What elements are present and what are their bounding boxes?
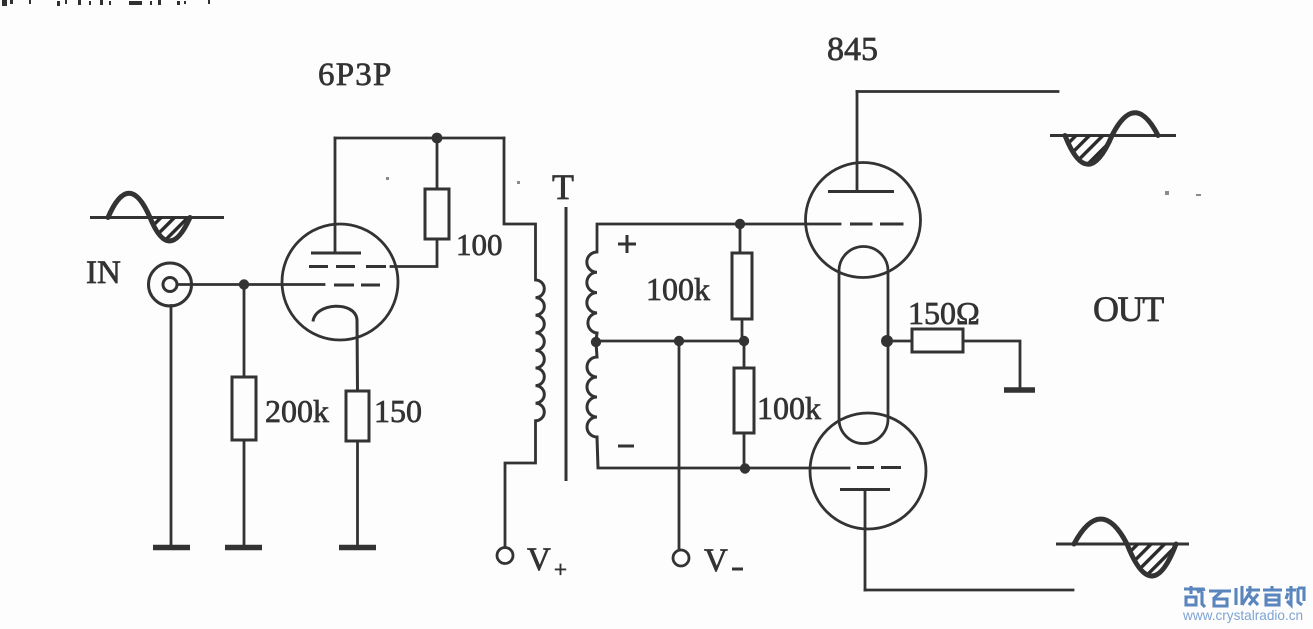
wire primary to V+	[505, 421, 536, 548]
wire 150 to ground	[356, 441, 359, 545]
wire secondary bottom to 845 grid	[598, 467, 849, 470]
node rail/100 junction	[432, 133, 443, 144]
svg-text:150: 150	[374, 393, 422, 429]
resistor 150ohm	[912, 329, 963, 352]
6P3P plate lead	[334, 138, 337, 253]
wire rail to 100 resistor	[436, 138, 439, 189]
wire center tap rail	[596, 340, 744, 343]
svg-text:100k: 100k	[646, 271, 710, 307]
transformer T primary winding	[536, 280, 545, 421]
ground (cathode)	[339, 545, 376, 551]
wire 100k upper to mid rail	[741, 319, 744, 341]
wire screen to 100 resistor	[391, 239, 437, 267]
label +	[618, 235, 636, 253]
845 filament capsule	[839, 246, 888, 443]
input sine wave curve	[108, 193, 190, 241]
ground (150ohm)	[1004, 387, 1035, 393]
upper output sine baseline	[1050, 134, 1176, 137]
svg-text:100: 100	[456, 227, 503, 262]
wire plate rail	[335, 137, 504, 140]
svg-text:V: V	[704, 543, 728, 579]
svg-text:OUT: OUT	[1093, 289, 1164, 329]
wire 845 plate to output	[857, 90, 1058, 93]
resistor 100k upper	[732, 253, 752, 319]
input sine wave hatched half	[150, 218, 190, 242]
wire secondary top to 845 grid	[597, 224, 840, 252]
ground (jack)	[153, 545, 190, 551]
resistor 150	[346, 391, 369, 441]
terminal V+	[497, 548, 513, 564]
svg-text:+: +	[554, 557, 567, 582]
lower output sine baseline	[1056, 543, 1189, 546]
terminal V-	[673, 550, 689, 566]
6P3P control grid (dashed)	[334, 284, 380, 287]
wire 200k to ground	[243, 440, 246, 545]
wire 845 lower plate to output	[865, 589, 1073, 592]
node input junction	[239, 279, 249, 289]
wire tap to 150ohm	[888, 340, 912, 343]
resistor 200k	[232, 377, 256, 440]
svg-text:100k: 100k	[757, 390, 821, 426]
svg-text:200k: 200k	[265, 393, 329, 429]
node 100k bottom	[740, 463, 750, 473]
tube 845 upper envelope	[806, 163, 921, 278]
input jack inner circle	[163, 278, 177, 292]
wire 150ohm to ground	[963, 341, 1020, 388]
resistor 100	[425, 189, 449, 239]
wire 100k lower to bottom rail	[743, 433, 746, 468]
svg-text:T: T	[552, 167, 574, 207]
node 100k top	[735, 219, 745, 229]
upper output sine curve	[1065, 113, 1158, 165]
paper specks	[386, 177, 1201, 196]
input jack outer circle	[149, 263, 192, 306]
6P3P plate	[311, 252, 361, 255]
upper output sine hatched half	[1065, 136, 1112, 165]
ground (200k)	[225, 545, 262, 551]
tube 6P3P envelope	[282, 224, 398, 340]
845 upper grid (dashed)	[850, 223, 904, 226]
svg-text:6P3P: 6P3P	[318, 57, 393, 93]
845 lower plate	[840, 488, 890, 491]
resistor 100k lower	[734, 368, 754, 433]
lower output sine curve	[1074, 519, 1176, 576]
tube 845 lower envelope	[810, 413, 926, 529]
node filament tap	[881, 335, 893, 347]
845 lower grid (dashed)	[857, 466, 901, 469]
wire V-	[678, 341, 681, 549]
6P3P screen grid (dashed)	[309, 265, 386, 268]
845 upper plate	[828, 190, 894, 193]
wire jack tip to grid node	[177, 283, 324, 286]
svg-text:845: 845	[827, 31, 878, 68]
svg-text:V: V	[527, 542, 551, 578]
845 lower plate lead	[864, 490, 867, 591]
svg-text:IN: IN	[86, 255, 121, 291]
watermark CJK glyphs	[1184, 586, 1304, 607]
node center tap	[591, 337, 601, 347]
845 upper plate lead	[856, 92, 859, 192]
node V- tap	[674, 336, 684, 346]
transformer secondary lower winding	[587, 342, 598, 468]
svg-text:150Ω: 150Ω	[908, 295, 980, 331]
wire node to 200k	[243, 289, 246, 377]
input sine wave baseline	[90, 216, 224, 219]
wire rail to transformer primary	[504, 138, 536, 280]
node 100k mid	[739, 336, 749, 346]
transformer secondary upper winding	[587, 252, 597, 341]
svg-text:www.crystalradio.cn: www.crystalradio.cn	[1182, 608, 1303, 623]
label -	[618, 445, 634, 448]
transformer core	[565, 207, 568, 481]
cropped caption text fragments (top edge)	[2, 0, 210, 6]
wire top node to 100k	[739, 224, 742, 253]
wire jack sleeve down	[170, 306, 173, 546]
lower output sine hatched half	[1127, 544, 1176, 576]
wire mid rail to 100k lower	[743, 341, 746, 368]
6P3P cathode arc and lead	[313, 306, 358, 391]
